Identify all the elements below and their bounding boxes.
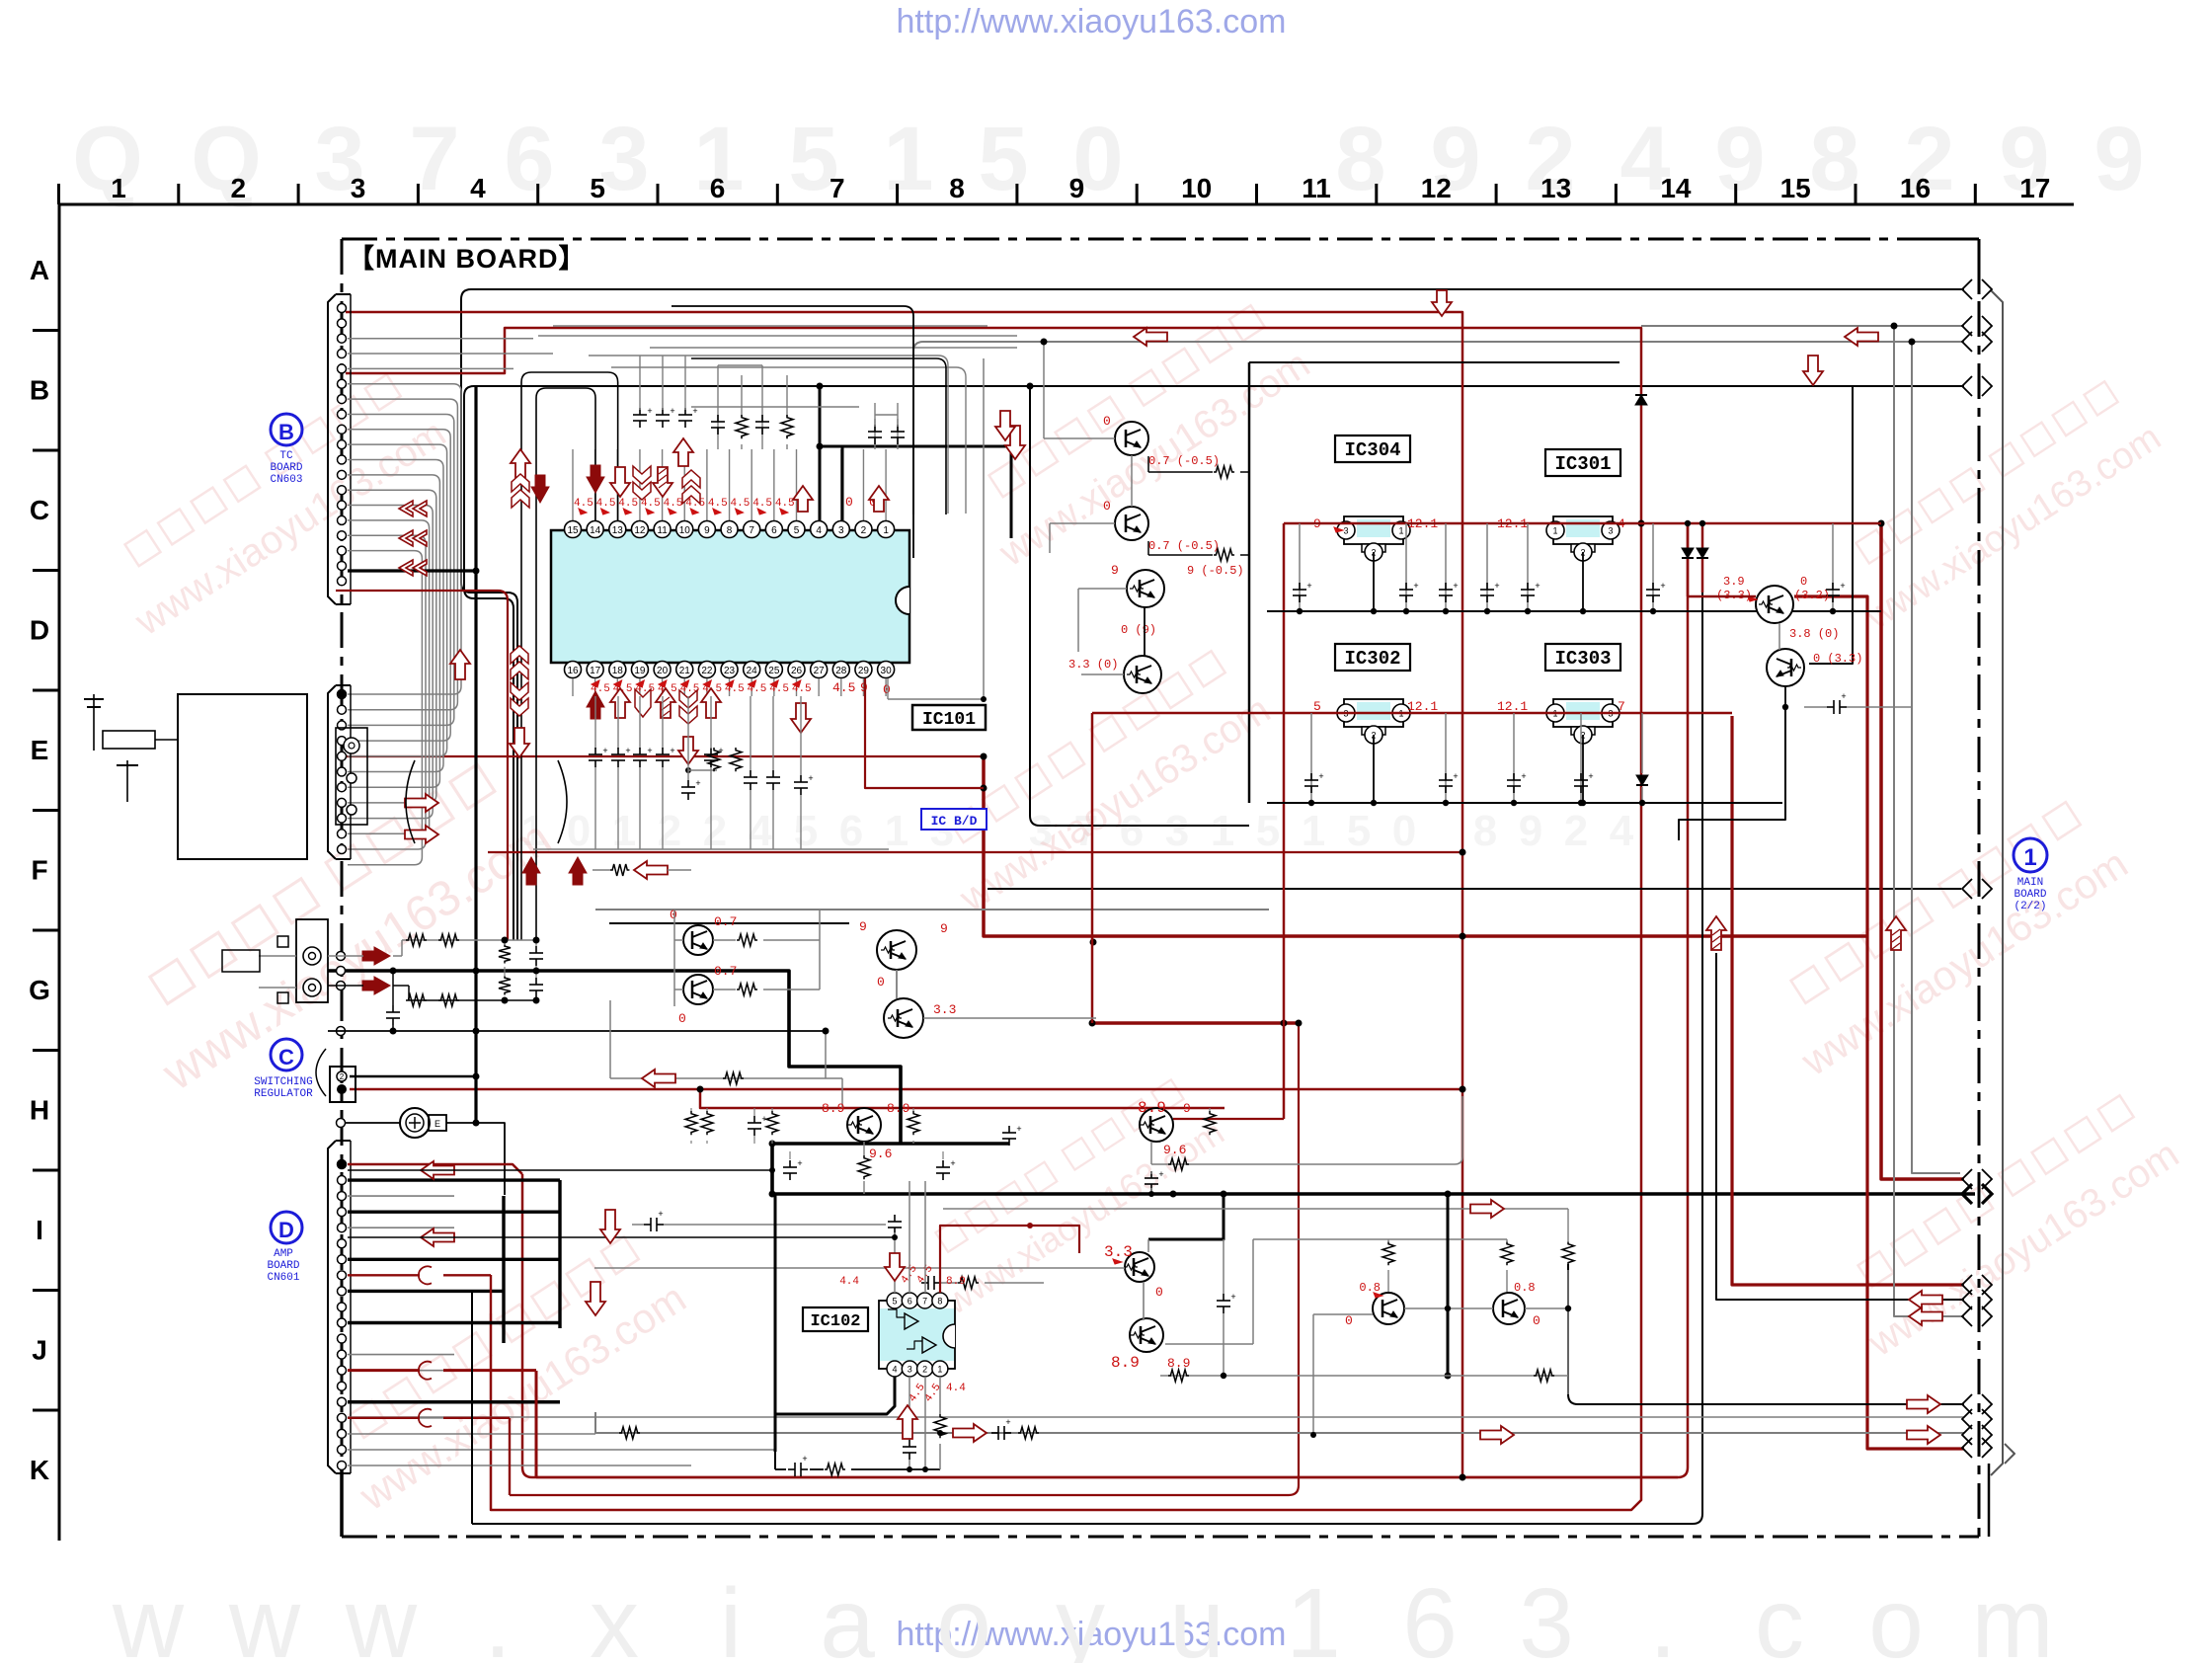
svg-text:4: 4 [892,1365,897,1375]
svg-text:m: m [1971,1568,2053,1663]
mechanism box [84,694,567,859]
svg-text:+: + [1230,1292,1235,1302]
svg-text:8: 8 [1335,109,1385,209]
watermark url top [897,3,1287,40]
svg-text:y: y [1056,1568,1105,1663]
svg-text:6: 6 [839,807,863,855]
svg-text:12: 12 [634,525,646,536]
IC301 label [1545,449,1620,476]
red rail upper IC30x [1173,523,1881,1119]
svg-text:7: 7 [749,525,754,536]
svg-text:IC304: IC304 [1344,439,1400,461]
diode top right on red column [1635,395,1647,405]
wire red C-regulator y1100 [350,1088,1462,1091]
svg-text:0.7: 0.7 [714,914,737,929]
svg-text:9.6: 9.6 [1163,1143,1186,1157]
red rail lower IC30x [1092,713,1732,1023]
svg-text:9: 9 [859,919,867,934]
svg-text:4.5: 4.5 [775,498,795,510]
frame wire around IC101 block [671,306,913,558]
svg-text:+: + [625,746,630,755]
svg-text:1: 1 [883,109,933,209]
svg-text:i: i [720,1568,742,1663]
svg-text:G: G [29,975,50,1005]
svg-text:12: 12 [1421,173,1452,203]
svg-text:REGULATOR: REGULATOR [254,1088,313,1100]
svg-text:+: + [802,1454,807,1464]
IC304 label [1335,436,1410,462]
wire black y1422 [1568,1264,1964,1404]
svg-text:J: J [32,1335,47,1366]
svg-text:21: 21 [679,666,691,676]
svg-text:3.3 (0): 3.3 (0) [1068,658,1118,672]
svg-text:http://www.xiaoyu163.com: http://www.xiaoyu163.com [897,3,1287,40]
svg-text:0: 0 [567,807,591,855]
svg-text:4.4: 4.4 [839,1276,859,1288]
svg-text:BOARD: BOARD [270,462,302,474]
svg-text:+: + [1306,581,1311,591]
wire gray y346 [913,342,1964,515]
IC302 regulator [1313,699,1438,744]
svg-text:3: 3 [1519,1568,1574,1663]
wire red vertical x1709 to y1496 [536,522,1688,1477]
arrows around IC101 top [511,426,1025,512]
QH2 emitter line [1145,1096,1462,1197]
svg-text:9: 9 [1111,563,1119,578]
svg-text:+: + [1453,581,1458,591]
svg-text:0: 0 [1345,1313,1353,1328]
I wiring [594,1194,1236,1376]
transistor Q mid4 [1068,623,1161,693]
svg-text:【MAIN BOARD】: 【MAIN BOARD】 [348,244,587,274]
svg-text:3: 3 [838,525,844,536]
svg-text:14: 14 [1660,173,1692,203]
svg-text:+: + [695,778,700,788]
IC102 pin8 red wire [940,1226,1079,1293]
svg-text:c: c [1755,1568,1804,1663]
wire gray y1451 [595,1412,1964,1433]
wire red thick x1905 [1881,522,1964,1179]
svg-text:5: 5 [1347,807,1371,855]
svg-text:1: 1 [885,807,908,855]
svg-text:11: 11 [657,525,668,536]
right pair wiring [1679,596,1912,840]
transistor QR1 [1716,575,1830,623]
svg-text:23: 23 [724,666,736,676]
ruler top [58,173,2074,204]
svg-text:27: 27 [814,666,826,676]
svg-text:0: 0 [1103,499,1111,514]
svg-text:0.7: 0.7 [714,964,737,979]
svg-text:9: 9 [704,525,710,536]
wire black y900 [987,888,1961,890]
svg-text:3: 3 [908,1365,912,1375]
connector CN601 body [328,1141,351,1473]
transistor QH2 [1138,1099,1191,1157]
svg-text:a: a [820,1568,875,1663]
IC B/D label [921,809,987,830]
svg-text:.: . [1649,1568,1677,1663]
svg-text:BOARD: BOARD [2014,889,2046,901]
junction dots G [390,937,829,1127]
svg-text:18: 18 [612,666,624,676]
svg-text:TC: TC [279,450,293,462]
svg-text:0: 0 [845,495,853,510]
transistor Q mid1 [1103,414,1220,468]
svg-text:8.9: 8.9 [887,1101,909,1116]
svg-text:0: 0 [1155,1285,1163,1300]
ruler left [29,204,59,1541]
motor M [346,1108,505,1195]
svg-text:E: E [434,1119,440,1129]
svg-text:6: 6 [504,109,554,209]
wire red thick x1891 [1794,596,1964,1449]
svg-text:2: 2 [658,807,681,855]
svg-text:2: 2 [340,1072,345,1081]
svg-text:4.5: 4.5 [752,498,772,510]
IC301 regulator [1497,516,1625,561]
svg-text:0: 0 [1392,807,1416,855]
svg-text:IC102: IC102 [810,1312,860,1331]
wire red y1514 [510,1023,1299,1495]
svg-text:4.5: 4.5 [641,498,661,510]
svg-text:3: 3 [598,109,649,209]
upper IC30x capacitor row [1267,523,1881,614]
wire red y1496 bottom [536,1476,1678,1479]
svg-text:(3.2): (3.2) [1794,589,1830,602]
svg-text:K: K [30,1455,49,1485]
svg-text:28: 28 [835,666,847,676]
main board title [348,244,587,274]
svg-text:+: + [1005,1417,1010,1427]
svg-text:A: A [30,255,49,285]
svg-text:CN601: CN601 [267,1272,299,1284]
svg-text:+: + [1494,581,1499,591]
svg-text:0 (9): 0 (9) [1121,623,1156,637]
wire black x1876 [1809,386,1853,664]
svg-text:3.3: 3.3 [1104,1243,1133,1261]
wire red thick x1754 [1732,716,1964,1285]
svg-text:22: 22 [701,666,713,676]
svg-text:+: + [1318,771,1323,781]
svg-text:1: 1 [1552,526,1557,536]
transistor QJ2 [1493,1281,1540,1328]
svg-text:4.5: 4.5 [731,498,750,510]
svg-text:9: 9 [1069,173,1085,203]
svg-text:9: 9 [1714,109,1765,209]
svg-text:3.3: 3.3 [933,1002,956,1017]
svg-text:CN603: CN603 [270,474,302,486]
wire black y935 [609,922,849,924]
svg-text:IC101: IC101 [922,710,976,730]
pin30 wire [888,358,987,702]
wire gray y921 [595,909,1269,911]
svg-text:10: 10 [679,525,691,536]
svg-text:9: 9 [1519,807,1542,855]
svg-text:IC303: IC303 [1554,648,1611,670]
svg-text:Q: Q [72,109,143,209]
label B TC BOARD CN603 [270,414,302,486]
svg-text:6: 6 [908,1297,912,1307]
IC102 label box [803,1307,868,1331]
svg-text:0: 0 [670,908,677,922]
arrow down left of IC102 [586,1282,605,1315]
svg-text:0.7 (-0.5): 0.7 (-0.5) [1148,454,1220,468]
transistor QH1 [822,1101,909,1161]
svg-text:+: + [670,746,674,755]
wire red B19 to G region [336,591,508,940]
wire black x1043 loop [1030,386,1249,826]
connector E body [328,685,351,859]
svg-text:0.8: 0.8 [1359,1281,1381,1295]
svg-text:5: 5 [978,109,1028,209]
watermark url bottom [897,1616,1287,1653]
IC102 pin5 upper wiring [894,1237,896,1293]
mid transistor wiring [1044,425,1249,674]
IC102 body [879,1293,955,1377]
svg-text:3: 3 [351,173,366,203]
red verticals with diodes [1682,520,1708,596]
svg-text:1: 1 [111,173,126,203]
svg-text:8: 8 [727,525,733,536]
connector C body [330,1067,355,1102]
svg-text:4.5: 4.5 [596,498,616,510]
connector CN603 fanout wires [348,339,553,865]
wire thick rail y1158 [772,1142,1009,1146]
connector CN603 pins [338,304,347,586]
svg-text:26: 26 [791,666,803,676]
svg-text:1: 1 [1211,807,1234,855]
pin29 red wire [865,678,984,788]
IC101 label box [912,705,986,730]
svg-text:w: w [112,1568,185,1663]
svg-text:0: 0 [1103,414,1111,429]
svg-text:+: + [1521,771,1526,781]
svg-text:I: I [36,1215,43,1245]
G filter ladder [328,934,842,1108]
svg-text:5: 5 [590,173,605,203]
wire black top y293 [461,289,1964,940]
svg-text:+: + [1840,581,1845,591]
svg-text:0 (3.3): 0 (3.3) [1813,652,1862,666]
wire red rail H y1122 [700,1089,1224,1108]
svg-text:B: B [278,420,294,444]
svg-text:5: 5 [794,525,800,536]
wire red thick y948 [984,756,1867,936]
wire red R1 y316 [346,312,1462,1477]
arrows below IC101 [450,646,811,764]
IC101 body [551,530,909,663]
IC101 pin voltage labels top [574,495,877,515]
wire thick black vertical x482 [474,386,477,1123]
svg-text:5: 5 [1256,807,1280,855]
svg-text:AMP: AMP [274,1248,293,1260]
IC102 voltage labels [839,1263,966,1404]
wire black y367 [1249,361,1619,363]
svg-text:+: + [808,773,813,783]
svg-text:9 (-0.5): 9 (-0.5) [1187,564,1244,578]
svg-text:0.8: 0.8 [1514,1281,1536,1295]
wire red y863 [488,851,1462,853]
transistor Q mid2 [1103,499,1220,553]
svg-text:25: 25 [768,666,780,676]
svg-text:C: C [30,495,49,525]
svg-text:(2/2): (2/2) [2014,901,2046,912]
svg-text:4: 4 [1610,807,1634,855]
svg-text:6: 6 [710,173,726,203]
svg-text:9: 9 [2093,109,2144,209]
svg-text:SWITCHING: SWITCHING [254,1076,312,1088]
transistor QR2 [1767,627,1862,686]
svg-text:9: 9 [940,921,948,936]
svg-text:1: 1 [1302,807,1325,855]
svg-text:5: 5 [892,1297,897,1307]
wiring mesh above IC101 [521,326,1017,940]
svg-text:+: + [647,406,652,416]
svg-text:MAIN: MAIN [2017,877,2043,889]
svg-text:7: 7 [829,173,845,203]
IC303 label [1545,644,1620,671]
svg-text:w: w [228,1568,301,1663]
transistor QI2 [1111,1318,1190,1372]
svg-text:x: x [590,1568,639,1663]
svg-text:o: o [936,1568,991,1663]
wire thick black path P1 [328,971,901,1144]
connector CN601 wires [348,1161,1106,1524]
svg-text:+: + [670,406,674,416]
svg-text:8.9: 8.9 [822,1101,844,1116]
svg-text:20: 20 [657,666,669,676]
svg-text:+: + [647,746,652,755]
edge connector chevrons [1962,279,1992,1458]
svg-text:8.9: 8.9 [1138,1099,1166,1117]
transistor QJ1 [1345,1281,1404,1328]
wire gray y330 [1641,325,1964,327]
svg-text:+: + [602,746,607,755]
svg-text:4.4: 4.4 [946,1383,966,1394]
svg-text:17: 17 [590,666,601,676]
svg-text:1: 1 [612,807,636,855]
svg-text:4: 4 [470,173,486,203]
svg-text:6: 6 [771,525,777,536]
wire black x1265 IC30x left [1248,362,1251,803]
transistor QG4 [877,975,956,1038]
svg-text:0.7 (-0.5): 0.7 (-0.5) [1148,539,1220,553]
label C SWITCHING REGULATOR [254,1039,326,1100]
svg-text:+: + [1158,1169,1163,1179]
svg-text:13: 13 [612,525,624,536]
svg-text:F: F [31,855,47,886]
wire gray x1918 [1894,326,1964,1316]
wire black x1724 to y1543 [472,593,1702,1524]
watermark gray text bottom row [112,1568,2054,1663]
svg-text:10: 10 [1181,173,1212,203]
svg-text:1: 1 [2023,844,2036,871]
wire black y1543 bottom [472,1523,1693,1525]
svg-text:BOARD: BOARD [267,1260,299,1272]
lower IC30x capacitor row [1267,713,1782,806]
svg-text:0: 0 [1800,575,1807,589]
svg-text:8: 8 [1473,807,1497,855]
svg-text:+: + [1453,771,1458,781]
IC302 label [1335,644,1410,671]
wire red R2 y332 [346,328,1641,1510]
connector CN603 body [328,294,351,604]
svg-text:0: 0 [1533,1313,1540,1328]
svg-text:+: + [1660,581,1665,591]
svg-text:19: 19 [634,666,646,676]
IC101 pins bottom [565,662,895,697]
svg-text:4.5: 4.5 [664,498,683,510]
svg-text:.: . [484,1568,512,1663]
svg-text:u: u [1169,1568,1224,1663]
G connector pass-through circles [337,952,346,1128]
svg-text:+: + [1535,581,1540,591]
svg-text:17: 17 [2019,173,2050,203]
transistor Q mid3 [1111,563,1244,607]
hatched up arrows right [1706,916,1906,950]
svg-text:4.5: 4.5 [708,498,728,510]
J cluster wiring [943,1191,1574,1395]
IC102 wiring [619,1181,1942,1476]
svg-text:B: B [30,375,49,406]
svg-text:11: 11 [1302,173,1331,203]
svg-text:8: 8 [1809,109,1859,209]
wire red E-pin y766 [346,755,984,757]
IC101 pin voltage labels bottom [591,680,891,697]
svg-text:D: D [278,1218,294,1242]
svg-text:1: 1 [1398,526,1403,536]
svg-text:29: 29 [858,666,870,676]
transistor QG3 [859,919,948,970]
svg-text:4: 4 [749,807,773,855]
I row caps [600,1209,1044,1290]
svg-text:D: D [30,615,49,646]
svg-text:IC302: IC302 [1344,648,1400,670]
svg-text:24: 24 [747,666,758,676]
svg-text:IC301: IC301 [1554,453,1611,475]
arrows left of IC101 top [399,501,427,576]
svg-text:4: 4 [816,525,822,536]
svg-text:2: 2 [1564,807,1588,855]
svg-text:16: 16 [1900,173,1931,203]
wiring mesh below IC101 [533,748,889,849]
svg-text:0: 0 [877,975,885,990]
svg-text:2: 2 [922,1365,927,1375]
main board dash-dot border [342,239,1979,1537]
connector E fanout [405,794,438,843]
svg-text:7: 7 [922,1297,927,1307]
svg-text:2: 2 [703,807,727,855]
wire black y1210 thick [772,1144,1975,1194]
svg-text:2: 2 [231,173,247,203]
svg-text:2: 2 [861,525,867,536]
svg-text:15: 15 [1780,173,1811,203]
svg-text:14: 14 [590,525,601,536]
svg-text:+: + [1588,771,1593,781]
watermark pink diagonal stamps [98,365,454,644]
svg-text:0: 0 [883,682,891,697]
svg-text:4.5: 4.5 [574,498,593,510]
capacitors above IC101 [633,356,905,449]
svg-text:9: 9 [1183,1101,1191,1116]
IC303 regulator [1497,699,1625,744]
svg-text:H: H [30,1095,49,1126]
thick black pins3-4 wiring [817,383,1012,539]
svg-text:8: 8 [937,1297,942,1307]
svg-text:1: 1 [1286,1568,1341,1663]
svg-text:1: 1 [883,525,889,536]
